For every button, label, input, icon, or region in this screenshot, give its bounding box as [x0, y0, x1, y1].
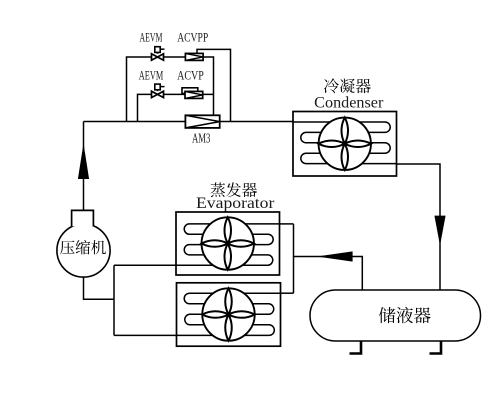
compressor 压缩机: [57, 210, 110, 277]
svg-text:AEVM: AEVM: [139, 69, 164, 83]
condenser heat exchanger: [293, 112, 397, 177]
svg-text:AEVM: AEVM: [140, 31, 163, 45]
svg-text:ACVPP: ACVPP: [177, 31, 208, 45]
wire: evap2 outlet to suction header: [114, 334, 176, 336]
label 储液器: [379, 307, 431, 323]
wire: evap1 inlet stub: [280, 223, 294, 225]
svg-text:ACVP: ACVP: [177, 69, 204, 83]
filter drier AM3: [185, 115, 219, 128]
wire: main line to condenser: [84, 121, 294, 123]
wire: branch 1 right side down to AM3: [203, 57, 213, 115]
arrow up on discharge riser: [78, 143, 89, 179]
wire: branch 2 left riser: [138, 94, 214, 121]
wire: suction to compressor: [84, 278, 115, 300]
wire: evaporator feed riser: [293, 224, 295, 293]
wire: condenser outlet to receiver: [397, 164, 441, 290]
valve ACVPP: [185, 53, 203, 60]
wire: receiver out pipe up and left: [294, 257, 363, 291]
arrow down to receiver: [434, 216, 445, 246]
arrow left on receiver out line: [317, 251, 353, 261]
receiver 储液器 tank: [310, 290, 481, 354]
svg-text:Evaporator: Evaporator: [196, 195, 275, 212]
label 压缩机: [60, 240, 106, 254]
wire: suction header vertical: [113, 265, 115, 335]
valve AEVM (second branch): [152, 84, 165, 98]
wire: compressor discharge riser: [83, 122, 85, 211]
svg-text:Condenser: Condenser: [314, 95, 384, 112]
valve AEVM (top branch): [152, 47, 165, 61]
evaporator 1 heat exchanger: [176, 212, 280, 275]
wire: branch 1 left riser: [127, 57, 186, 122]
wire: evap2 inlet stub: [281, 292, 294, 294]
label 蒸发器: [211, 182, 257, 197]
label 冷凝器: [324, 78, 371, 93]
wire: ACVPP top stub over to bypass riser: [197, 49, 231, 121]
valve ACVP with pilot box: [182, 88, 203, 99]
svg-text:AM3: AM3: [192, 132, 210, 147]
evaporator 2 heat exchanger: [177, 283, 281, 346]
wire: evap1 outlet to suction header: [114, 264, 176, 266]
